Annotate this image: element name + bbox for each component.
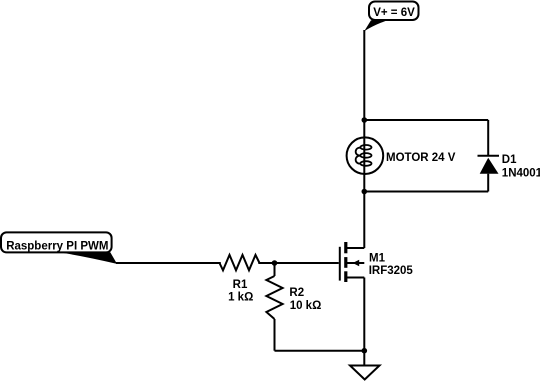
wire gate lead left — [116, 262, 221, 264]
node bottom junction — [362, 189, 368, 195]
callout V+ = 6V — [364, 2, 418, 32]
node top junction — [362, 117, 368, 123]
wire gate lead right — [258, 262, 339, 264]
svg-text:10 kΩ: 10 kΩ — [290, 300, 322, 312]
wire R2 to ground rail — [275, 350, 365, 352]
resistor R2 — [266, 263, 321, 351]
svg-text:1N4001: 1N4001 — [502, 167, 540, 179]
svg-text:IRF3205: IRF3205 — [369, 265, 414, 277]
motor MOTOR 24 V — [347, 120, 456, 192]
svg-text:V+ = 6V: V+ = 6V — [373, 7, 415, 19]
svg-text:1 kΩ: 1 kΩ — [228, 291, 253, 303]
svg-text:R2: R2 — [289, 287, 304, 299]
svg-text:M1: M1 — [369, 252, 386, 264]
node gate junction — [272, 260, 278, 266]
wire source — [363, 278, 365, 351]
wire top rail — [364, 119, 488, 121]
callout Raspberry PI PWM — [1, 232, 117, 264]
svg-text:D1: D1 — [502, 154, 517, 166]
wire diode branch top — [487, 120, 489, 156]
resistor R1 — [220, 255, 260, 304]
wire V+ to top node — [363, 30, 365, 120]
svg-text:MOTOR 24 V: MOTOR 24 V — [386, 152, 456, 164]
diode D1 — [478, 154, 540, 180]
wire to ground — [363, 351, 365, 366]
svg-text:R1: R1 — [233, 279, 248, 291]
transistor M1 IRF3205 — [340, 242, 414, 282]
wire drain — [363, 192, 365, 249]
wire bottom rail — [364, 191, 488, 193]
wire diode branch bottom — [487, 174, 489, 192]
ground — [350, 366, 380, 380]
node ground junction — [362, 348, 368, 354]
svg-text:Raspberry PI PWM: Raspberry PI PWM — [6, 240, 108, 252]
